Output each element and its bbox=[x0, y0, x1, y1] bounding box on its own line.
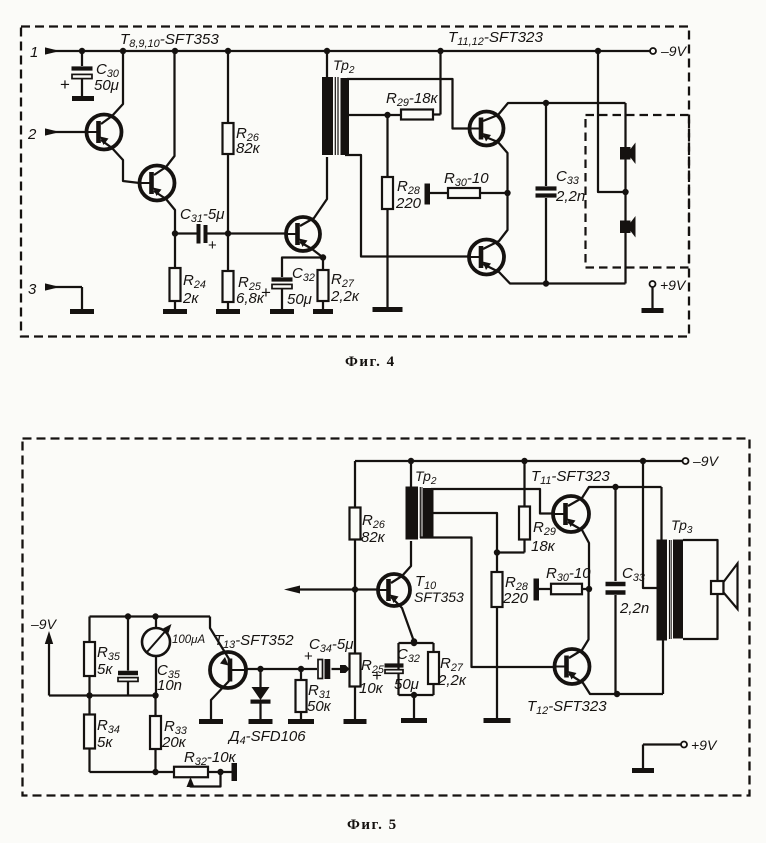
svg-text:50μ: 50μ bbox=[94, 77, 119, 94]
svg-text:+9V: +9V bbox=[660, 277, 687, 293]
svg-text:50μ: 50μ bbox=[394, 676, 419, 693]
svg-text:50μ: 50μ bbox=[287, 291, 312, 308]
svg-text:+: + bbox=[60, 75, 70, 94]
svg-text:18к: 18к bbox=[531, 538, 556, 555]
svg-text:+: + bbox=[208, 237, 217, 254]
svg-text:2,2n: 2,2n bbox=[619, 600, 649, 617]
svg-text:82к: 82к bbox=[236, 140, 261, 157]
svg-text:2: 2 bbox=[27, 126, 37, 143]
svg-text:20к: 20к bbox=[161, 734, 187, 751]
svg-text:C31-5μ: C31-5μ bbox=[180, 206, 224, 225]
svg-text:2,2к: 2,2к bbox=[437, 672, 467, 689]
svg-text:Фиг. 4: Фиг. 4 bbox=[345, 354, 396, 370]
svg-text:5к: 5к bbox=[97, 661, 113, 678]
svg-text:Д4-SFD106: Д4-SFD106 bbox=[227, 728, 306, 747]
svg-text:82к: 82к bbox=[361, 529, 386, 546]
svg-text:R32-10к: R32-10к bbox=[184, 749, 237, 768]
svg-text:–9V: –9V bbox=[660, 43, 688, 59]
svg-text:100μA: 100μA bbox=[172, 634, 205, 646]
svg-text:+: + bbox=[372, 666, 382, 685]
svg-text:R30-10: R30-10 bbox=[546, 565, 591, 584]
svg-text:2,2n: 2,2n bbox=[555, 188, 585, 205]
svg-text:+: + bbox=[261, 283, 271, 302]
svg-text:2к: 2к bbox=[182, 290, 199, 307]
svg-text:+9V: +9V bbox=[691, 737, 718, 753]
svg-text:1: 1 bbox=[30, 44, 38, 61]
svg-text:Фиг. 5: Фиг. 5 bbox=[347, 817, 398, 833]
svg-text:–9V: –9V bbox=[30, 616, 58, 632]
svg-text:3: 3 bbox=[28, 281, 37, 298]
svg-text:+: + bbox=[304, 648, 313, 665]
svg-text:R30-10: R30-10 bbox=[444, 170, 489, 189]
svg-text:SFT353: SFT353 bbox=[414, 589, 464, 605]
svg-text:50к: 50к bbox=[307, 698, 332, 715]
svg-text:220: 220 bbox=[395, 195, 422, 212]
svg-text:5к: 5к bbox=[97, 734, 113, 751]
svg-text:10n: 10n bbox=[157, 677, 182, 694]
svg-text:2,2к: 2,2к bbox=[330, 288, 360, 305]
svg-text:220: 220 bbox=[502, 590, 529, 607]
svg-text:C34-5μ: C34-5μ bbox=[309, 636, 353, 655]
svg-text:–9V: –9V bbox=[692, 453, 720, 469]
svg-text:R29-18к: R29-18к bbox=[386, 90, 439, 109]
